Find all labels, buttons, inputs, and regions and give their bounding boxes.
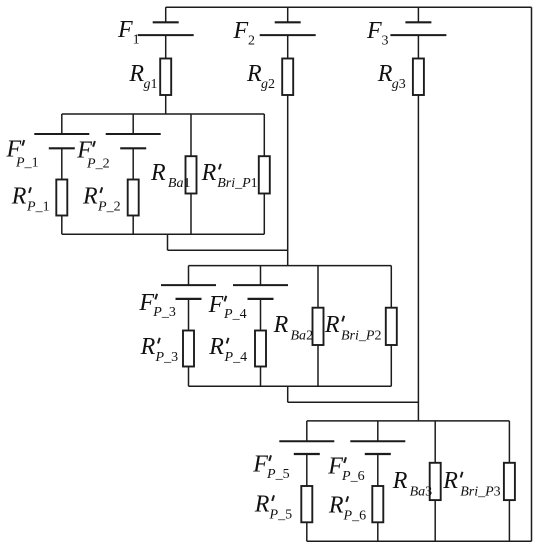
label R'Bri_P2 xyxy=(324,312,382,344)
resistor R'Bri_P3 xyxy=(504,463,515,500)
label R'P_3 xyxy=(140,334,178,365)
svg-text:R: R xyxy=(128,61,144,87)
resistor RBa3 xyxy=(430,463,441,500)
wire block1 to F2 branch xyxy=(168,249,288,251)
battery F'P_2 xyxy=(106,114,161,180)
wire R'P_5 to rail xyxy=(306,522,308,541)
svg-text:Ba3: Ba3 xyxy=(410,485,433,500)
resistor R'P_5 xyxy=(301,486,312,522)
svg-text:P_5: P_5 xyxy=(269,508,293,523)
svg-text:P_3: P_3 xyxy=(155,350,179,365)
wire Rg3 to block3 xyxy=(417,95,419,421)
svg-text:P_2: P_2 xyxy=(86,156,110,171)
wire block2 to F3 branch xyxy=(288,401,419,403)
battery F'P_1 xyxy=(34,114,89,180)
wire Rg1 to block1 xyxy=(165,95,167,114)
resistor Rg3 xyxy=(413,59,424,96)
label RBa3 xyxy=(392,468,432,500)
svg-text:P_3: P_3 xyxy=(152,305,176,320)
label R'P_1 xyxy=(11,184,50,215)
resistor R'Bri_P2 xyxy=(386,308,397,345)
label R'P_2 xyxy=(82,184,121,215)
svg-text:P_6: P_6 xyxy=(341,469,365,484)
wire RBa3 branch bottom xyxy=(434,500,436,541)
label F3 xyxy=(366,18,389,49)
label F'P_3 xyxy=(138,290,175,320)
battery F1 xyxy=(138,7,194,58)
svg-text:R: R xyxy=(140,334,156,360)
wire RBa1 branch top xyxy=(190,114,192,156)
svg-text:F: F xyxy=(252,452,268,478)
wire R'P_1 to rail xyxy=(61,216,63,235)
label R'P_4 xyxy=(208,334,247,365)
battery F'P_4 xyxy=(233,266,288,331)
svg-text:R: R xyxy=(246,61,262,87)
svg-text:P_5: P_5 xyxy=(266,467,290,482)
battery F3 xyxy=(390,7,446,58)
svg-text:P_6: P_6 xyxy=(343,509,367,524)
resistor R'P_2 xyxy=(128,180,139,216)
battery F'P_5 xyxy=(279,421,334,486)
svg-text:Ba1: Ba1 xyxy=(168,176,191,191)
svg-text:R: R xyxy=(11,184,27,210)
battery F'P_3 xyxy=(161,266,216,331)
svg-text:P_4: P_4 xyxy=(224,350,248,365)
label F'P_1 xyxy=(6,136,39,170)
svg-text:Bri_P3: Bri_P3 xyxy=(460,485,500,500)
svg-text:g2: g2 xyxy=(261,77,275,92)
svg-text:R: R xyxy=(201,160,217,186)
svg-text:R: R xyxy=(254,492,270,518)
svg-text:3: 3 xyxy=(382,34,389,49)
resistor R'P_4 xyxy=(255,331,266,367)
battery F'P_6 xyxy=(350,421,405,486)
label F'P_4 xyxy=(208,292,247,322)
svg-text:Bri_P2: Bri_P2 xyxy=(341,329,381,344)
label Rg1 xyxy=(128,61,157,92)
svg-text:P_1: P_1 xyxy=(26,200,50,215)
svg-text:F: F xyxy=(327,454,343,480)
wire R'Bri_P3 branch bottom xyxy=(508,500,510,541)
wire RBa3 branch top xyxy=(434,421,436,463)
svg-text:R: R xyxy=(392,468,408,494)
wire RBa2 branch top xyxy=(317,266,319,308)
wire R'Bri_P1 branch top xyxy=(263,114,265,156)
svg-text:R: R xyxy=(442,468,458,494)
svg-text:Bri_P1: Bri_P1 xyxy=(217,176,257,191)
svg-text:F: F xyxy=(138,290,154,316)
svg-text:R: R xyxy=(377,61,393,87)
wire block2 bottom rail xyxy=(189,385,392,387)
wire R'P_2 to rail xyxy=(132,216,134,235)
label RBa2 xyxy=(273,312,313,344)
wire Rg2 to block2 xyxy=(287,95,289,266)
wire block1 top rail xyxy=(62,113,264,115)
label R'P_5 xyxy=(254,492,292,523)
wire R'Bri_P3 branch top xyxy=(508,421,510,463)
wire block3 top rail xyxy=(307,420,510,422)
wire R'Bri_P2 branch bottom xyxy=(390,345,392,386)
svg-text:R: R xyxy=(324,312,340,338)
resistor R'P_3 xyxy=(183,331,194,367)
svg-text:g3: g3 xyxy=(392,77,406,92)
label R'Bri_P1 xyxy=(201,160,258,191)
resistor R'Bri_P1 xyxy=(259,156,270,193)
svg-text:P_2: P_2 xyxy=(97,200,121,215)
resistor RBa2 xyxy=(313,308,324,345)
label R'P_6 xyxy=(328,493,366,524)
svg-text:F: F xyxy=(117,17,133,43)
label F2 xyxy=(233,18,256,49)
wire block2 top rail xyxy=(189,265,392,267)
wire RBa1 branch bottom xyxy=(190,194,192,235)
label R'Bri_P3 xyxy=(442,468,500,500)
wire block1 bottom rail xyxy=(62,233,264,235)
resistor Rg2 xyxy=(282,59,293,96)
svg-text:F: F xyxy=(233,18,249,44)
wire top rail xyxy=(166,6,532,8)
battery F2 xyxy=(260,7,316,58)
wire R'Bri_P1 branch bottom xyxy=(263,194,265,235)
svg-text:Ba2: Ba2 xyxy=(291,329,314,344)
svg-text:1: 1 xyxy=(133,33,140,48)
svg-text:R: R xyxy=(273,312,289,338)
label F'P_5 xyxy=(252,452,289,482)
wire block2 drop xyxy=(287,386,289,402)
svg-text:P_4: P_4 xyxy=(223,307,247,322)
wire R'P_4 to rail xyxy=(260,367,262,387)
svg-text:g1: g1 xyxy=(144,77,158,92)
label F'P_6 xyxy=(327,454,364,484)
resistor RBa1 xyxy=(186,156,197,193)
wire right return xyxy=(531,7,533,541)
resistor R'P_6 xyxy=(372,486,383,522)
wire R'P_3 to rail xyxy=(188,367,190,387)
resistor Rg1 xyxy=(160,59,171,96)
wire block3 bottom rail xyxy=(307,540,532,542)
label Rg3 xyxy=(377,61,406,92)
wire R'Bri_P2 branch top xyxy=(390,266,392,308)
svg-text:R: R xyxy=(208,334,224,360)
svg-text:R: R xyxy=(328,493,344,519)
svg-text:R: R xyxy=(82,184,98,210)
resistor R'P_1 xyxy=(56,180,67,216)
label F'P_2 xyxy=(76,137,109,171)
wire RBa2 branch bottom xyxy=(317,345,319,386)
label F1 xyxy=(117,17,140,48)
svg-text:F: F xyxy=(366,18,382,44)
svg-text:P_1: P_1 xyxy=(15,155,39,170)
svg-text:F: F xyxy=(208,292,224,318)
label RBa1 xyxy=(150,160,190,191)
wire R'P_6 to rail xyxy=(377,522,379,541)
svg-text:2: 2 xyxy=(248,34,255,49)
label Rg2 xyxy=(246,61,275,92)
svg-text:R: R xyxy=(150,160,166,186)
wire block1 drop xyxy=(167,234,169,250)
